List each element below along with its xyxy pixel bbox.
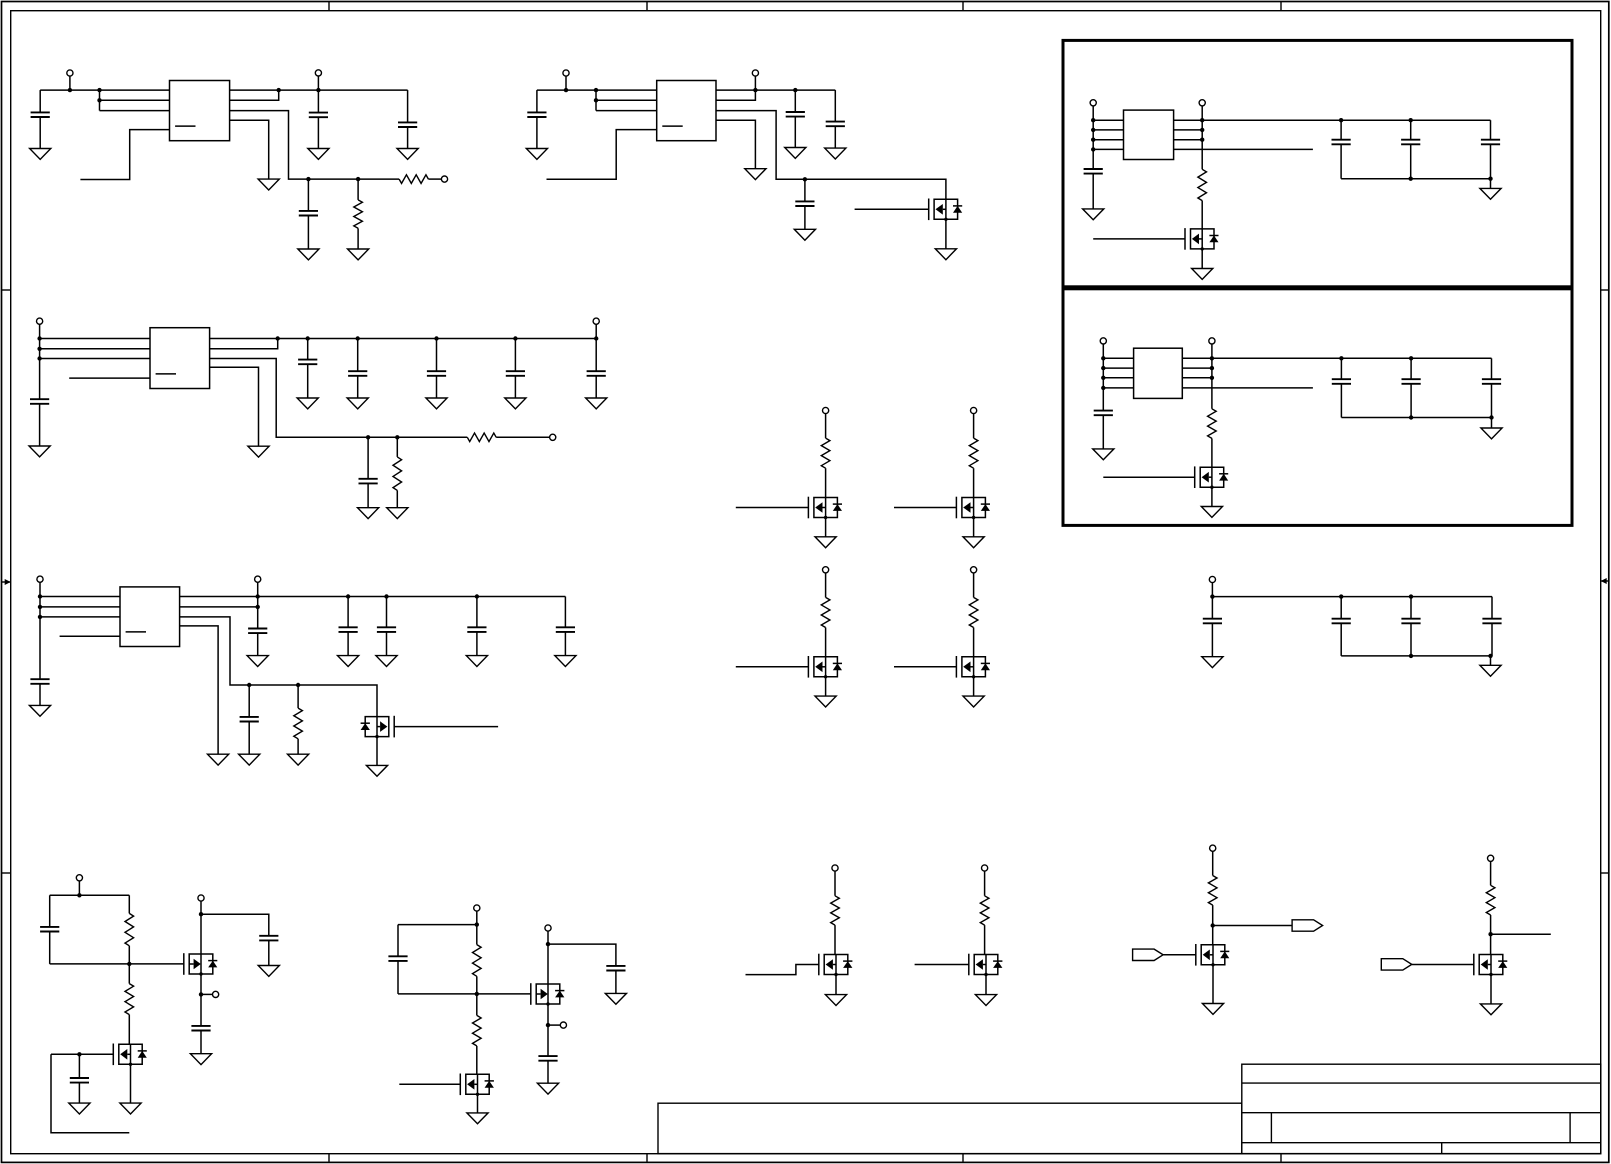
- capacitor C15: [248, 629, 267, 634]
- terminal: [474, 905, 480, 911]
- junction: [1339, 118, 1343, 122]
- junction: [366, 435, 370, 439]
- wire: [496, 436, 550, 438]
- net flag in: [1133, 949, 1164, 960]
- wire: [595, 339, 597, 372]
- wire: [200, 901, 202, 914]
- capacitor C11: [30, 399, 49, 404]
- wire: [130, 1064, 132, 1103]
- wire pin feedback: [716, 90, 755, 100]
- wire U4 pin out: [1182, 387, 1313, 389]
- junction: [199, 912, 203, 916]
- ground: [794, 229, 815, 240]
- junction: [77, 893, 81, 897]
- wire: [514, 376, 516, 398]
- wire: [1410, 623, 1412, 656]
- wire gate: [894, 666, 956, 668]
- ground: [1201, 507, 1222, 518]
- wire Q3 gate: [1103, 476, 1194, 478]
- wire top rail: [1212, 596, 1492, 598]
- wire: [1410, 358, 1412, 379]
- capacitor: [1482, 619, 1501, 624]
- junction: [1210, 376, 1214, 380]
- resistor R2: [354, 200, 363, 228]
- wire: [476, 597, 478, 628]
- wire: [476, 925, 478, 945]
- wire Q13 gate: [746, 965, 819, 975]
- wire: [268, 940, 270, 965]
- junction: [594, 88, 598, 92]
- wire: [307, 339, 309, 360]
- resistor R15: [473, 1015, 482, 1046]
- wire: [1340, 384, 1342, 418]
- border zone tick top: [328, 2, 330, 11]
- wire: [317, 90, 319, 113]
- terminal: [1090, 100, 1096, 106]
- wire pin2: [40, 348, 150, 350]
- wire gnd pin: [210, 367, 259, 446]
- resistor R16: [831, 896, 840, 925]
- capacitor: [1481, 140, 1500, 145]
- wire: [1491, 418, 1493, 429]
- ground: [555, 656, 576, 667]
- transistor Q11: [531, 983, 565, 1006]
- junction: [306, 177, 310, 181]
- wire: [1213, 925, 1292, 927]
- wire: [257, 582, 259, 628]
- junction: [316, 88, 320, 92]
- wire: [794, 117, 796, 148]
- wire: [1212, 851, 1214, 875]
- ground: [29, 705, 50, 716]
- transistor Q8: [956, 656, 990, 679]
- transistor Q6: [956, 497, 990, 520]
- junction: [803, 177, 807, 181]
- ground: [1480, 665, 1501, 676]
- wire: [201, 914, 269, 936]
- wire: [536, 90, 538, 112]
- wire Q4 gate: [394, 726, 498, 728]
- terminal: [1209, 338, 1215, 344]
- wire: [1410, 384, 1412, 418]
- capacitor C21: [191, 1026, 210, 1031]
- capacitor C24: [538, 1056, 557, 1061]
- wire VIN rail: [537, 89, 657, 91]
- wire: [1201, 249, 1203, 269]
- wire: [386, 632, 388, 656]
- wire: [50, 894, 130, 896]
- capacitor: [348, 371, 367, 376]
- wire bottom rail: [1341, 655, 1492, 657]
- wire: [476, 632, 478, 656]
- capacitor C2: [309, 113, 328, 118]
- junction: [127, 962, 131, 966]
- wire pin3: [100, 110, 170, 112]
- junction: [384, 594, 388, 598]
- wire: [973, 414, 975, 439]
- wire: [248, 685, 250, 717]
- capacitor C18: [40, 927, 59, 932]
- capacitor: [506, 371, 525, 376]
- border zone tick top: [646, 2, 648, 11]
- ground: [526, 149, 547, 160]
- junction: [475, 992, 479, 996]
- wire: [477, 1094, 479, 1113]
- capacitor C9: [1084, 169, 1103, 174]
- wire VOUT rail: [230, 89, 408, 91]
- wire pin3: [40, 616, 120, 618]
- ground: [586, 398, 607, 409]
- wire: [564, 597, 566, 628]
- IC U3: [1124, 110, 1174, 159]
- capacitor C5: [527, 112, 546, 117]
- wire: [39, 324, 41, 399]
- wire top rail: [1202, 119, 1490, 121]
- wire to Q4 drain: [180, 617, 377, 717]
- junction: [68, 88, 72, 92]
- border zone tick top: [962, 2, 964, 11]
- capacitor: [587, 371, 606, 376]
- ground: [297, 398, 318, 409]
- wire: [804, 206, 806, 229]
- junction: [38, 615, 42, 619]
- wire Q14 gate: [915, 964, 969, 966]
- wire VIN rail: [40, 89, 169, 91]
- terminal VOUT1: [315, 70, 321, 76]
- ground: [1202, 1004, 1223, 1015]
- junction: [475, 594, 479, 598]
- wire: [376, 737, 378, 766]
- ground: [248, 446, 269, 457]
- wire U3 right pin: [1174, 129, 1203, 131]
- wire: [1201, 201, 1203, 229]
- wire VOUT rail: [180, 596, 566, 598]
- wire: [1092, 106, 1094, 169]
- wire: [547, 944, 549, 984]
- wire sense node: [230, 111, 400, 180]
- terminal: [1100, 338, 1106, 344]
- wire: [347, 597, 349, 628]
- capacitor C20: [259, 936, 278, 941]
- wire: [825, 414, 827, 439]
- transistor Q3: [1195, 466, 1229, 489]
- terminal sense: [550, 434, 556, 440]
- junction: [37, 336, 41, 340]
- resistor R19: [1486, 885, 1495, 915]
- wire: [548, 944, 616, 966]
- notes box: [658, 1103, 1242, 1153]
- transistor Q12: [460, 1074, 494, 1097]
- junction: [1101, 376, 1105, 380]
- capacitor: [556, 627, 575, 632]
- wire: [1211, 487, 1213, 506]
- ground: [258, 966, 279, 977]
- wire: [1092, 174, 1094, 209]
- wire: [397, 925, 399, 957]
- junction: [296, 683, 300, 687]
- wire: [200, 974, 202, 994]
- junction: [247, 683, 251, 687]
- wire: [973, 677, 975, 696]
- wire: [825, 628, 827, 657]
- wire: [78, 881, 80, 895]
- wire: [69, 76, 71, 90]
- wire: [973, 573, 975, 598]
- wire VIN rail: [40, 338, 150, 340]
- wire: [398, 924, 477, 926]
- transistor Q5: [808, 497, 842, 520]
- wire gnd pin: [180, 626, 219, 754]
- wire: [307, 179, 309, 211]
- transistor Q4: [361, 716, 395, 739]
- junction: [97, 88, 101, 92]
- wire: [476, 994, 478, 1016]
- capacitor C22: [388, 956, 407, 961]
- ground: [347, 398, 368, 409]
- wire: [347, 632, 349, 656]
- terminal VIN1: [67, 70, 73, 76]
- junction: [1488, 177, 1492, 181]
- wire: [367, 437, 369, 479]
- wire U4 left pin: [1103, 357, 1133, 359]
- capacitor: [1332, 379, 1351, 384]
- wire pin2: [100, 99, 170, 101]
- border zone tick left: [2, 289, 11, 291]
- wire: [1340, 597, 1342, 619]
- ground: [366, 765, 387, 776]
- terminal: [982, 865, 988, 871]
- wire VOUT rail: [210, 338, 597, 340]
- resistor R17: [980, 896, 989, 925]
- junction: [594, 98, 598, 102]
- terminal: [823, 567, 829, 573]
- wire: [973, 468, 975, 497]
- junction: [1210, 594, 1214, 598]
- resistor R5: [467, 433, 496, 442]
- ground: [397, 149, 418, 160]
- ground: [1192, 269, 1213, 280]
- wire gate: [736, 507, 809, 509]
- transistor Q10: [113, 1044, 147, 1067]
- wire: [804, 179, 806, 201]
- junction: [395, 435, 399, 439]
- wire: [297, 685, 299, 708]
- wire: [39, 404, 41, 446]
- capacitor: [1332, 619, 1351, 624]
- resistor R18: [1208, 876, 1217, 906]
- border center arrow left: [2, 579, 11, 585]
- capacitor C7: [826, 122, 845, 127]
- wire: [476, 976, 478, 994]
- ground: [376, 656, 397, 667]
- transistor Q9: [184, 953, 218, 976]
- capacitor: [467, 627, 486, 632]
- resistor R7: [294, 708, 303, 739]
- wire: [1340, 120, 1342, 140]
- ground: [825, 148, 846, 159]
- wire: [407, 90, 409, 122]
- wire: [754, 76, 756, 90]
- border zone tick bottom: [646, 1154, 648, 1162]
- wire: [317, 117, 319, 148]
- junction: [37, 347, 41, 351]
- ground: [825, 995, 846, 1006]
- wire: [1490, 861, 1492, 885]
- wire stub: [51, 1054, 129, 1133]
- wire Q16 gate: [1412, 964, 1474, 966]
- transistor Q7: [808, 656, 842, 679]
- border zone tick bottom: [1280, 1154, 1282, 1162]
- wire: [1212, 905, 1214, 945]
- wire: [834, 90, 836, 122]
- terminal VOUT4: [255, 576, 261, 582]
- wire: [547, 931, 549, 944]
- capacitor C19: [70, 1078, 89, 1083]
- wire stub: [548, 1024, 560, 1026]
- junction: [1091, 147, 1095, 151]
- junction: [564, 88, 568, 92]
- ground: [815, 537, 836, 548]
- wire: [428, 178, 441, 180]
- wire: [78, 1054, 80, 1078]
- junction: [306, 336, 310, 340]
- wire: [1211, 583, 1213, 619]
- wire gnd pin: [716, 120, 755, 168]
- junction: [1101, 386, 1105, 390]
- ground: [963, 537, 984, 548]
- wire enable: [547, 130, 657, 180]
- junction: [256, 594, 260, 598]
- resistor R4: [1208, 409, 1217, 439]
- junction: [753, 88, 757, 92]
- wire: [547, 1025, 549, 1056]
- capacitor C10: [1094, 411, 1113, 416]
- wire: [396, 490, 398, 507]
- wire: [386, 597, 388, 628]
- wire: [128, 895, 130, 913]
- wire gnd pin: [230, 120, 269, 179]
- ground: [467, 1113, 488, 1124]
- wire: [1490, 975, 1492, 1004]
- wire: [794, 90, 796, 112]
- junction: [1200, 118, 1204, 122]
- resistor R12: [125, 913, 134, 945]
- terminal: [1210, 845, 1216, 851]
- transistor Q1: [929, 199, 963, 222]
- wire U3 pin out: [1174, 148, 1313, 150]
- wire: [357, 179, 359, 200]
- junction: [1409, 594, 1413, 598]
- ground: [1083, 209, 1104, 220]
- capacitor: [1332, 140, 1351, 145]
- wire: [1410, 597, 1412, 619]
- wire to Q1 drain: [716, 111, 946, 200]
- junction: [594, 336, 598, 340]
- terminal: [1199, 100, 1205, 106]
- terminal: [545, 925, 551, 931]
- wire U4 right pin: [1182, 367, 1212, 369]
- wire: [1491, 623, 1493, 656]
- ground: [120, 1103, 141, 1114]
- junction: [1409, 118, 1413, 122]
- capacitor: [427, 371, 446, 376]
- wire: [1212, 965, 1214, 1004]
- terminal: [1209, 576, 1215, 582]
- wire: [565, 76, 567, 90]
- capacitor: [1401, 140, 1420, 145]
- border zone tick left: [2, 872, 11, 874]
- capacitor: [377, 627, 396, 632]
- capacitor C3: [398, 122, 417, 127]
- border zone tick top: [1280, 2, 1282, 11]
- wire: [128, 1015, 130, 1045]
- wire: [357, 376, 359, 398]
- wire: [297, 739, 299, 754]
- junction: [546, 942, 550, 946]
- ground: [239, 754, 260, 765]
- transistor Q2: [1185, 228, 1219, 250]
- wire: [200, 1031, 202, 1054]
- terminal: [971, 407, 977, 413]
- wire: [307, 364, 309, 398]
- wire: [595, 376, 597, 398]
- wire sense node: [210, 359, 468, 438]
- ground: [1480, 1004, 1501, 1015]
- ground: [1480, 188, 1501, 199]
- wire pin feedback: [180, 606, 258, 608]
- resistor R13: [125, 984, 134, 1015]
- wire: [595, 90, 597, 111]
- wire: [78, 1083, 80, 1104]
- wire: [476, 911, 478, 925]
- junction: [1489, 415, 1493, 419]
- wire enable: [80, 130, 169, 180]
- terminal: [971, 567, 977, 573]
- wire: [835, 975, 837, 995]
- capacitor C1: [31, 112, 50, 117]
- regulator U2: [657, 81, 716, 141]
- capacitor C12: [298, 360, 317, 365]
- wire U4 right pin: [1182, 357, 1212, 359]
- junction: [1409, 654, 1413, 658]
- capacitor C6: [786, 112, 805, 117]
- junction: [38, 594, 42, 598]
- wire: [1211, 623, 1213, 656]
- wire: [1340, 623, 1342, 656]
- wire bottom rail: [1341, 178, 1490, 180]
- wire U3 right pin: [1174, 139, 1203, 141]
- terminal VOUT3: [593, 318, 599, 324]
- wire: [436, 339, 438, 372]
- wire: [1211, 344, 1213, 409]
- ground: [935, 249, 956, 260]
- wire: [200, 994, 202, 1026]
- resistor R6: [393, 457, 402, 491]
- wire to Q9 gate: [50, 963, 184, 965]
- wire pin3: [596, 110, 657, 112]
- wire: [1410, 120, 1412, 140]
- junction: [546, 1023, 550, 1027]
- wire: [407, 127, 409, 149]
- resistor R9: [969, 438, 978, 468]
- ground: [466, 656, 487, 667]
- frame box 1: [1063, 40, 1572, 286]
- ground: [208, 754, 229, 765]
- wire: [945, 219, 947, 249]
- ground: [785, 148, 806, 159]
- wire: [825, 677, 827, 696]
- junction: [356, 177, 360, 181]
